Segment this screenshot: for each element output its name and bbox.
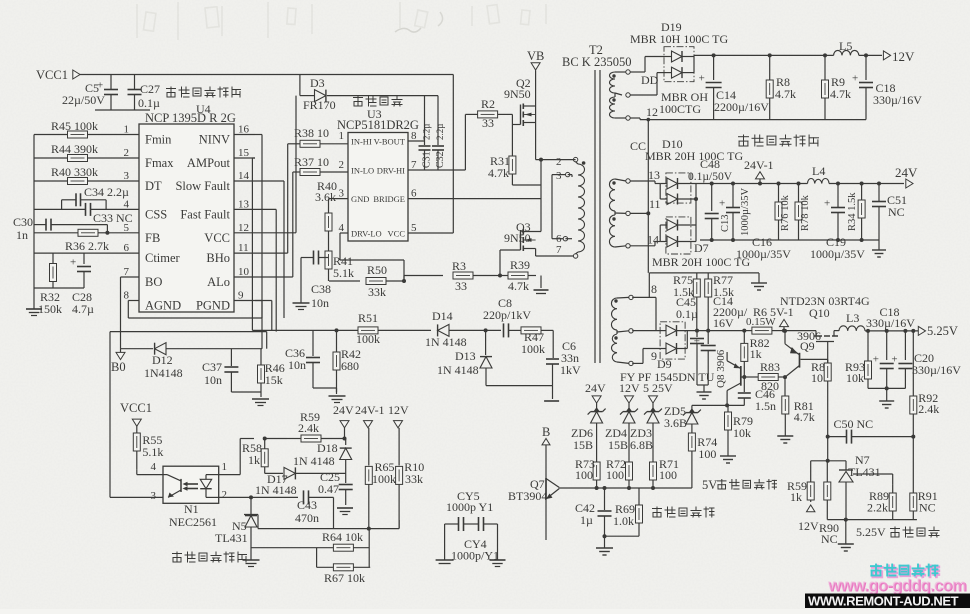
svg-text:100: 100 bbox=[698, 447, 716, 461]
watermark remont bar bbox=[805, 594, 970, 609]
wire 5.25V rail bbox=[865, 330, 918, 332]
svg-text:9N50: 9N50 bbox=[504, 231, 531, 245]
svg-text:3: 3 bbox=[556, 170, 562, 182]
ground under R42 bbox=[313, 388, 346, 403]
diode D13 1N4148 bbox=[437, 328, 492, 385]
wire 24V center tap bbox=[630, 211, 650, 215]
terminal VB bbox=[527, 49, 544, 70]
svg-text:100k: 100k bbox=[356, 332, 380, 346]
svg-text:9: 9 bbox=[238, 290, 244, 302]
resistor R8 10 (Q10 gate) bbox=[811, 359, 831, 460]
diode D18 1N4148 bbox=[293, 439, 352, 484]
svg-text:0.1µ: 0.1µ bbox=[138, 96, 160, 110]
svg-text:R39: R39 bbox=[510, 258, 530, 272]
svg-text:2: 2 bbox=[556, 156, 562, 168]
svg-text:2.2µ: 2.2µ bbox=[435, 124, 445, 140]
inductor L4 bbox=[808, 164, 905, 184]
svg-text:330µ/16V: 330µ/16V bbox=[866, 316, 915, 330]
resistor R59 2.4k bbox=[265, 410, 345, 442]
capacitor C13 1000u/35V bbox=[719, 182, 751, 241]
svg-text:R50: R50 bbox=[367, 263, 387, 277]
svg-text:1: 1 bbox=[222, 461, 228, 473]
svg-text:16: 16 bbox=[238, 124, 250, 136]
resistor R77 1.5k bbox=[705, 273, 734, 331]
wire main feedback line bbox=[252, 329, 359, 331]
resistor R37 10 bbox=[293, 155, 348, 176]
IC U3 NCP5181DR2G bbox=[337, 107, 419, 241]
terminal 24V-1 arrow mid bbox=[355, 403, 385, 466]
wire secondary common bus bbox=[647, 118, 651, 273]
svg-text:100k: 100k bbox=[372, 472, 396, 486]
svg-text:5.25V: 5.25V bbox=[856, 525, 886, 539]
resistor R74 100 bbox=[688, 433, 717, 488]
capacitor CY5 1000p Y1 bbox=[445, 489, 494, 531]
svg-text:C48: C48 bbox=[700, 157, 720, 171]
svg-text:22µ/50V: 22µ/50V bbox=[62, 93, 105, 107]
svg-text:1000µ/35V: 1000µ/35V bbox=[736, 247, 791, 261]
svg-text:12V: 12V bbox=[892, 49, 915, 64]
svg-text:100: 100 bbox=[575, 468, 593, 482]
terminal 24V-1 bbox=[744, 158, 774, 186]
resistor R83 820 bbox=[742, 360, 785, 393]
svg-text:24V-1: 24V-1 bbox=[744, 158, 774, 172]
zener ZD4 15B bbox=[605, 407, 638, 462]
ground under N5 bbox=[243, 560, 260, 567]
wire C5/C27 common bbox=[95, 109, 150, 111]
svg-text:680: 680 bbox=[341, 359, 359, 373]
svg-text:0.47: 0.47 bbox=[318, 482, 339, 496]
svg-text:D12: D12 bbox=[152, 353, 173, 367]
svg-text:DRV-LO: DRV-LO bbox=[351, 229, 382, 239]
resistor R71 100 bbox=[650, 457, 680, 488]
svg-text:PGND: PGND bbox=[196, 299, 230, 313]
svg-text:33: 33 bbox=[482, 116, 494, 130]
svg-text:B0: B0 bbox=[111, 360, 126, 374]
svg-text:4: 4 bbox=[124, 198, 130, 210]
svg-text:2: 2 bbox=[124, 147, 130, 159]
resistor R59 1k (right) bbox=[787, 461, 814, 504]
wire Fast Fault pin13 vertical bbox=[255, 209, 276, 331]
capacitor C14 2200u/16V (12V) bbox=[699, 53, 770, 119]
capacitor C50 NC bbox=[826, 417, 916, 444]
wire 24V winding ends to diodes bbox=[630, 181, 660, 246]
svg-text:VCC: VCC bbox=[204, 231, 230, 245]
svg-text:NC: NC bbox=[888, 205, 905, 219]
ground under C25 bbox=[337, 508, 353, 515]
resistor R36 2.7k bbox=[34, 229, 139, 253]
inductor L3 bbox=[839, 311, 865, 331]
svg-text:2: 2 bbox=[339, 159, 345, 171]
svg-text:2: 2 bbox=[222, 489, 228, 501]
svg-text:15B: 15B bbox=[573, 438, 593, 452]
svg-text:BRIDGE: BRIDGE bbox=[373, 194, 405, 204]
svg-text:1000µ/35V: 1000µ/35V bbox=[740, 188, 751, 236]
svg-text:D7: D7 bbox=[694, 241, 709, 255]
wire half-bridge mid bbox=[536, 158, 576, 228]
svg-text:+: + bbox=[891, 354, 897, 366]
svg-text:12: 12 bbox=[238, 222, 249, 234]
svg-text:6: 6 bbox=[124, 242, 130, 254]
terminal 5.25V output bbox=[918, 324, 958, 338]
svg-text:NCP 1395D R 2G: NCP 1395D R 2G bbox=[145, 111, 236, 125]
wire N1 pin2 bbox=[219, 495, 253, 499]
wire 12V rail bbox=[694, 55, 834, 56]
svg-text:+: + bbox=[694, 336, 700, 348]
transformer T2 BC K 235050 label bbox=[562, 43, 631, 69]
svg-text:13: 13 bbox=[648, 168, 660, 182]
svg-text:R38 10: R38 10 bbox=[294, 126, 329, 140]
svg-text:VB: VB bbox=[527, 49, 544, 63]
svg-text:6: 6 bbox=[411, 188, 417, 200]
wire VCC pin12 riser bbox=[255, 96, 296, 233]
diode D3 FR170 bbox=[300, 75, 438, 113]
svg-text:VCC1: VCC1 bbox=[120, 401, 152, 415]
svg-text:DRV-HI: DRV-HI bbox=[377, 166, 405, 176]
wire D13/C6 common + ground bbox=[486, 386, 559, 401]
faint scan bleed-through marks (decorative) bbox=[137, 2, 546, 40]
wire N1 pin1 up bbox=[219, 439, 254, 475]
resistor R40 330k bbox=[34, 165, 139, 185]
svg-text:C43: C43 bbox=[297, 498, 317, 512]
wire 12V winding top to D19 bbox=[630, 57, 664, 73]
wire AGND pin8 loop bbox=[128, 301, 262, 319]
svg-text:R64 10k: R64 10k bbox=[322, 530, 363, 544]
capacitor C38 10n bbox=[301, 251, 331, 311]
capacitor CY4 1000p/Y1 bbox=[451, 517, 499, 563]
wire R32/C28 common to ground bbox=[34, 287, 84, 289]
resistor R40 3.6k (U3 GND) bbox=[315, 179, 348, 242]
svg-text:24V: 24V bbox=[333, 403, 354, 417]
wire primary pin3-pin6 link bbox=[552, 175, 566, 239]
wire BHo pin11 to U3 pin1 bbox=[255, 144, 288, 253]
svg-text:R36 2.7k: R36 2.7k bbox=[65, 239, 109, 253]
capacitor C43 470n bbox=[251, 490, 334, 528]
label 5.25V regulator circuit (Chinese) bbox=[856, 525, 939, 539]
svg-text:C31: C31 bbox=[422, 151, 433, 168]
svg-text:2200µ/16V: 2200µ/16V bbox=[714, 100, 769, 114]
capacitor C14 2200u/16V (5V) bbox=[694, 294, 748, 385]
capacitor C18 330u/16V (12V) bbox=[852, 53, 922, 119]
svg-text:4.7k: 4.7k bbox=[830, 87, 851, 101]
svg-text:7: 7 bbox=[124, 266, 130, 278]
svg-text:11: 11 bbox=[649, 197, 661, 211]
resistor R75 1.5k bbox=[673, 273, 700, 331]
resistor R50 33k bbox=[329, 263, 404, 299]
terminal 5V-1 arrow bbox=[780, 319, 789, 332]
svg-text:330µ/16V: 330µ/16V bbox=[873, 93, 922, 107]
wire 5V winding top to snubber rail bbox=[632, 273, 759, 331]
resistor R8 4.7k bbox=[766, 53, 796, 119]
svg-text:33: 33 bbox=[455, 279, 467, 293]
svg-text:+: + bbox=[852, 73, 858, 85]
wire ZD5/R79 row bbox=[692, 403, 744, 407]
svg-text:R51: R51 bbox=[358, 311, 378, 325]
svg-text:2.4k: 2.4k bbox=[298, 421, 319, 435]
svg-text:2.4k: 2.4k bbox=[918, 402, 939, 416]
wire Slow Fault pin14 vertical bbox=[255, 181, 284, 318]
wire DD tap to D19 bbox=[630, 73, 664, 95]
svg-text:+: + bbox=[719, 198, 725, 210]
svg-text:1N4148: 1N4148 bbox=[144, 366, 183, 380]
svg-text:FR170: FR170 bbox=[303, 98, 336, 112]
wire regulator bottom row bbox=[827, 518, 917, 551]
svg-text:100CTG: 100CTG bbox=[659, 102, 701, 116]
label sampling error amplifier (Chinese) bbox=[173, 552, 247, 562]
svg-text:10k: 10k bbox=[733, 426, 751, 440]
svg-text:Q10: Q10 bbox=[809, 306, 830, 320]
resistor R31 4.7k bbox=[488, 114, 541, 185]
svg-text:C37: C37 bbox=[202, 360, 222, 374]
diode D17 1N4148 bbox=[255, 467, 346, 497]
svg-text:VCC: VCC bbox=[388, 229, 406, 239]
wire AGND lower loop bbox=[110, 332, 267, 498]
transformer T2 5V secondary winding bbox=[611, 282, 657, 366]
svg-text:Q8 3906: Q8 3906 bbox=[715, 349, 727, 388]
terminal 12V arrow up bbox=[798, 505, 819, 533]
wire protection bus bbox=[559, 486, 692, 490]
svg-text:1k: 1k bbox=[750, 347, 762, 361]
transistor Q8 3906 bbox=[715, 349, 744, 405]
svg-text:1k: 1k bbox=[248, 453, 260, 467]
wire 12V return rail bbox=[630, 105, 866, 120]
resistor R51 100k bbox=[356, 311, 431, 346]
transformer T2 core bbox=[595, 70, 600, 363]
svg-text:C34 2.2µ: C34 2.2µ bbox=[84, 185, 129, 199]
svg-text:NCP5181DR2G: NCP5181DR2G bbox=[337, 118, 419, 132]
wire VCC pin5 bbox=[408, 232, 453, 234]
svg-text:CSS: CSS bbox=[145, 207, 167, 221]
resistor R41 5.1k bbox=[325, 242, 354, 281]
diode D19 MBR 10H 100C TG bbox=[630, 20, 728, 116]
wire 5V filter bottom + ground bbox=[868, 386, 905, 408]
svg-text:N1: N1 bbox=[184, 502, 199, 516]
svg-text:R83: R83 bbox=[760, 360, 780, 374]
svg-text:AMPout: AMPout bbox=[187, 156, 231, 170]
capacitor C31 2.2u bbox=[419, 96, 433, 170]
resistor R38 10 bbox=[288, 126, 348, 147]
svg-text:C32: C32 bbox=[435, 151, 446, 168]
resistor R76 10k bbox=[775, 182, 791, 241]
shunt regulator N7 TL431 bbox=[839, 453, 893, 520]
wire ALo pin10 to U3 pin2 bbox=[255, 172, 293, 277]
wire NINV pin16 vertical bbox=[255, 135, 262, 349]
wire VCC1 rail bbox=[78, 75, 453, 234]
resistor R92 2.4k bbox=[910, 329, 940, 437]
svg-text:10: 10 bbox=[238, 266, 250, 278]
svg-text:1.0k: 1.0k bbox=[613, 514, 634, 528]
diode D10 MBR 20H 100C TG bbox=[645, 137, 743, 205]
ground left bus bbox=[26, 288, 42, 316]
resistor R65 100k bbox=[365, 460, 396, 529]
terminal 24V arrow right bbox=[585, 381, 606, 410]
svg-text:IN-HI: IN-HI bbox=[351, 137, 372, 147]
wire PGND pin9 vertical to main bbox=[255, 301, 272, 331]
svg-text:R76 10k: R76 10k bbox=[780, 194, 791, 231]
ground under R81 bbox=[777, 432, 793, 443]
label overvoltage protection (Chinese) bbox=[653, 507, 715, 517]
wire V-BOUT pin8 bbox=[408, 140, 425, 142]
resistor R3 33 bbox=[404, 259, 495, 293]
capacitor C8 220p/1kV bbox=[483, 296, 531, 337]
svg-text:12: 12 bbox=[646, 105, 658, 119]
label rectifier filter circuit (Chinese) bbox=[739, 135, 819, 146]
transformer T2 12V secondary winding bbox=[610, 70, 631, 120]
svg-text:24V-1: 24V-1 bbox=[355, 403, 385, 417]
label 5V overcurrent protection (Chinese) bbox=[702, 478, 777, 492]
svg-text:DT: DT bbox=[145, 179, 162, 193]
ground right of CY caps bbox=[490, 524, 506, 567]
svg-text:V-BOUT: V-BOUT bbox=[374, 137, 406, 147]
svg-text:L3: L3 bbox=[846, 311, 859, 325]
ground under C38 bbox=[293, 258, 310, 310]
svg-text:L4: L4 bbox=[812, 164, 825, 178]
zener ZD6 15B bbox=[571, 407, 606, 462]
wire 24V bottom rail bbox=[700, 238, 879, 242]
svg-text:Ctimer: Ctimer bbox=[145, 251, 181, 265]
capacitor C19 1000u/35V bbox=[824, 182, 845, 241]
terminal B bbox=[542, 425, 550, 478]
capacitor C32 2.2u bbox=[432, 96, 446, 170]
svg-text:10n: 10n bbox=[204, 373, 222, 387]
svg-text:1: 1 bbox=[124, 124, 130, 136]
svg-text:DD: DD bbox=[641, 73, 659, 87]
svg-text:NC: NC bbox=[919, 501, 936, 515]
transistor Q2 9N50 MOSFET bbox=[504, 70, 536, 159]
wire pin6 Ctimer bbox=[34, 253, 139, 264]
IC U4 NCP1395D R 2G bbox=[124, 102, 256, 313]
capacitor C30 1n bbox=[13, 215, 107, 242]
svg-text:R45 100k: R45 100k bbox=[51, 119, 98, 133]
svg-text:Fast Fault: Fast Fault bbox=[180, 207, 230, 221]
ground left of CY caps bbox=[436, 524, 454, 564]
inductor L5 bbox=[834, 39, 859, 55]
resistor R2 33 bbox=[465, 97, 512, 130]
svg-text:9N50: 9N50 bbox=[504, 87, 531, 101]
svg-text:R3: R3 bbox=[452, 259, 466, 273]
svg-text:330µ/16V: 330µ/16V bbox=[912, 363, 961, 377]
svg-text:15B: 15B bbox=[608, 438, 628, 452]
svg-text:R40 330k: R40 330k bbox=[51, 165, 98, 179]
svg-text:+: + bbox=[873, 354, 879, 366]
svg-text:BHo: BHo bbox=[206, 251, 230, 265]
svg-text:10k: 10k bbox=[846, 371, 864, 385]
svg-text:16V: 16V bbox=[713, 316, 734, 330]
svg-text:1µ: 1µ bbox=[580, 513, 593, 527]
svg-text:6.8B: 6.8B bbox=[630, 438, 653, 452]
resistor R44 390k bbox=[34, 142, 139, 162]
resistor R46 15k bbox=[258, 349, 285, 392]
svg-text:3.6k: 3.6k bbox=[315, 190, 336, 204]
svg-text:B: B bbox=[542, 425, 550, 439]
diode D12 1N4148 bbox=[121, 343, 263, 380]
transistor Q3 9N50 MOSFET bbox=[504, 220, 573, 256]
svg-text:100: 100 bbox=[659, 468, 677, 482]
svg-text:WWW.REMONT-AUD.NET: WWW.REMONT-AUD.NET bbox=[808, 594, 959, 609]
svg-text:C13: C13 bbox=[720, 214, 731, 232]
resistor R78 10k bbox=[795, 182, 811, 241]
resistor R69 1.0k bbox=[613, 488, 643, 536]
wire TL431 ref row bbox=[258, 520, 399, 531]
resistor R58 1k bbox=[242, 437, 268, 471]
svg-text:CC: CC bbox=[630, 139, 646, 153]
capacitor C45 0.1u bbox=[676, 295, 704, 385]
svg-text:5.25V: 5.25V bbox=[927, 324, 958, 338]
ground under R39 bbox=[534, 276, 549, 294]
terminal VCC1 bbox=[36, 68, 80, 82]
svg-text:5: 5 bbox=[411, 222, 417, 234]
svg-text:100: 100 bbox=[606, 468, 624, 482]
wire R55 to N1 pin4 bbox=[137, 470, 163, 475]
svg-text:+: + bbox=[824, 198, 830, 210]
svg-text:15: 15 bbox=[238, 147, 250, 159]
svg-text:24V: 24V bbox=[585, 381, 606, 395]
svg-text:1.5n: 1.5n bbox=[755, 399, 776, 413]
svg-text:R78 10k: R78 10k bbox=[800, 194, 811, 231]
wire BO pin7 to B0 net bbox=[121, 277, 140, 349]
wire 5V-1 rail bbox=[695, 329, 746, 333]
capacitor C27 0.1u bbox=[128, 75, 161, 111]
svg-text:2.2µ: 2.2µ bbox=[422, 124, 432, 140]
zener ZD5 3.6B bbox=[664, 404, 701, 433]
capacitor C20 330u/16V bbox=[891, 329, 961, 389]
svg-text:8: 8 bbox=[651, 282, 657, 296]
resistor R89 2.2k bbox=[867, 484, 896, 519]
transistor Q7 BT3904 bbox=[508, 477, 559, 540]
svg-text:5.1k: 5.1k bbox=[333, 266, 354, 280]
capacitor C36 10n bbox=[285, 330, 320, 388]
svg-text:Q9: Q9 bbox=[800, 339, 815, 353]
svg-text:D13: D13 bbox=[455, 349, 476, 363]
svg-text:C50 NC: C50 NC bbox=[834, 417, 874, 431]
resistor R79 10k bbox=[725, 405, 754, 452]
svg-text:GND: GND bbox=[351, 194, 369, 204]
svg-text:www.go-gddq.com: www.go-gddq.com bbox=[827, 577, 966, 595]
svg-text:BO: BO bbox=[145, 275, 162, 289]
svg-text:ALo: ALo bbox=[207, 275, 230, 289]
svg-text:BC K 235050: BC K 235050 bbox=[562, 55, 631, 69]
svg-text:4: 4 bbox=[339, 222, 345, 234]
label C19 1000u/35V bbox=[810, 235, 865, 261]
svg-text:R67 10k: R67 10k bbox=[324, 571, 365, 585]
wire regulator top row bbox=[811, 459, 846, 463]
wire 5V winding mid/bottom to D9 bbox=[632, 331, 660, 364]
resistor R42 680 bbox=[333, 328, 361, 392]
ground under R46 bbox=[231, 392, 269, 406]
resistor R45 100k bbox=[34, 119, 139, 138]
svg-text:0.1µ: 0.1µ bbox=[676, 307, 698, 321]
svg-text:11: 11 bbox=[238, 242, 249, 254]
label C16 1000u/35V bbox=[736, 235, 791, 261]
svg-text:13: 13 bbox=[238, 198, 250, 210]
svg-text:10n: 10n bbox=[311, 296, 329, 310]
resistor R91 NC bbox=[910, 437, 938, 520]
diode D9 FY PF 1545DN TU bbox=[620, 322, 715, 384]
terminal 24V arrow mid bbox=[333, 403, 354, 441]
capacitor C37 10n bbox=[202, 349, 238, 392]
svg-text:1k: 1k bbox=[790, 490, 802, 504]
svg-text:D3: D3 bbox=[310, 76, 325, 90]
svg-text:FY PF 1545DN TU: FY PF 1545DN TU bbox=[620, 370, 715, 384]
svg-text:C38: C38 bbox=[311, 282, 331, 296]
capacitor C48 0.1u/50V bbox=[688, 157, 733, 240]
svg-text:VCC1: VCC1 bbox=[36, 68, 68, 82]
svg-text:Fmax: Fmax bbox=[145, 156, 174, 170]
svg-text:470n: 470n bbox=[295, 511, 319, 525]
wire BRIDGE pin6 to half-bridge mid bbox=[408, 198, 541, 200]
capacitor C18 330u/16V (5V) bbox=[866, 305, 915, 388]
terminal 24V output bbox=[895, 165, 918, 188]
svg-text:1N 4148: 1N 4148 bbox=[425, 335, 467, 349]
